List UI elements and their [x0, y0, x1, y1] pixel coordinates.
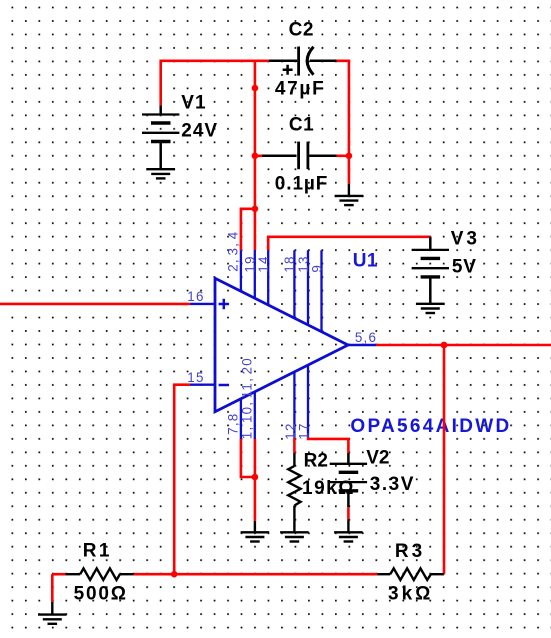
svg-text:R1: R1 — [83, 541, 112, 562]
op-amp minus mark — [219, 384, 229, 387]
wire output down to R3 — [443, 345, 446, 574]
battery V3 — [412, 237, 449, 304]
wire pins 1,10,11,20 to ground — [254, 439, 257, 521]
wire R1 to ground — [51, 574, 54, 602]
svg-text:1,10,11,20: 1,10,11,20 — [239, 357, 254, 439]
svg-text:47µF: 47µF — [275, 79, 326, 100]
svg-text:500Ω: 500Ω — [74, 584, 128, 605]
pin 16 stub — [190, 303, 215, 305]
wire feedback to pin 15 — [174, 385, 190, 575]
battery V2 — [330, 453, 367, 507]
resistor R1 — [52, 568, 133, 580]
wire pins 7,8 down — [241, 439, 255, 477]
wire V2 to ground — [347, 507, 350, 519]
wire output — [376, 344, 551, 347]
svg-text:V1: V1 — [181, 92, 206, 113]
wire supply vertical x=255 — [254, 60, 257, 251]
pin 15 stub — [190, 384, 215, 386]
svg-text:2,3,4: 2,3,4 — [226, 231, 241, 272]
op-amp plus mark — [219, 299, 229, 309]
svg-text:C2: C2 — [289, 19, 314, 40]
wire pin14 to V3 — [268, 237, 430, 250]
svg-text:V3: V3 — [451, 229, 480, 250]
battery V1 — [142, 105, 179, 169]
wire bottom rail — [134, 573, 378, 576]
svg-text:14: 14 — [256, 255, 271, 272]
wire pin 12 to R2 — [293, 438, 296, 453]
ground R2 — [280, 532, 309, 541]
svg-text:U1: U1 — [353, 251, 378, 272]
ground V2 — [334, 519, 363, 541]
pin 17 line — [307, 365, 309, 438]
pin 18 line — [293, 250, 295, 318]
wire C2 right down to C1 node — [337, 61, 349, 184]
svg-text:C1: C1 — [289, 115, 314, 136]
junction dot bottom rail — [171, 571, 178, 578]
svg-text:5,6: 5,6 — [355, 330, 377, 345]
svg-text:V2: V2 — [366, 447, 389, 468]
junction dot C1 right — [346, 153, 353, 160]
ground C1 — [335, 184, 364, 205]
svg-text:OPA564AIDWD: OPA564AIDWD — [350, 416, 511, 437]
op-amp U1 triangle — [215, 278, 348, 412]
svg-text:17: 17 — [296, 422, 311, 439]
pin 19 line — [254, 250, 256, 298]
svg-text:15: 15 — [187, 370, 204, 385]
svg-text:R3: R3 — [395, 541, 425, 562]
svg-text:16: 16 — [187, 289, 204, 304]
ground V3 — [416, 304, 445, 313]
capacitor C2 — [269, 47, 337, 76]
pin 12 line — [293, 372, 295, 438]
output stub pins 5,6 — [348, 344, 376, 346]
junction dot x255 y209 — [252, 206, 259, 213]
pin 13 line — [307, 250, 309, 325]
wire top rail V1 to C2 — [161, 61, 269, 106]
junction dot output — [441, 342, 448, 349]
svg-text:3.3V: 3.3V — [370, 474, 415, 495]
svg-text:9: 9 — [309, 264, 324, 273]
pin 9 line — [320, 250, 322, 331]
svg-text:24V: 24V — [181, 121, 218, 142]
pin 7,8 line — [240, 399, 242, 440]
svg-text:5V: 5V — [452, 257, 477, 278]
resistor R3 — [377, 568, 444, 580]
svg-text:0.1µF: 0.1µF — [275, 173, 328, 194]
svg-text:3kΩ: 3kΩ — [388, 584, 433, 605]
wire input to pin 16 — [0, 303, 190, 306]
resistor R2 — [288, 453, 300, 532]
pin 1,10,11,20 line — [254, 392, 256, 440]
junction dot x255 y156 — [252, 153, 259, 160]
svg-text:R2: R2 — [304, 450, 328, 471]
ground V1 — [146, 169, 175, 178]
pin 2,3,4 line — [240, 250, 242, 291]
junction dot x255 y88 — [252, 85, 259, 92]
wire pin 17 to V2 — [308, 438, 348, 453]
capacitor C1 — [255, 142, 349, 170]
ground pins — [241, 521, 270, 542]
pin 14 line — [267, 250, 269, 305]
junction dot pins gnd — [252, 474, 259, 481]
wire jog to pins 2,3,4 — [241, 209, 255, 250]
ground R1 — [38, 602, 67, 624]
